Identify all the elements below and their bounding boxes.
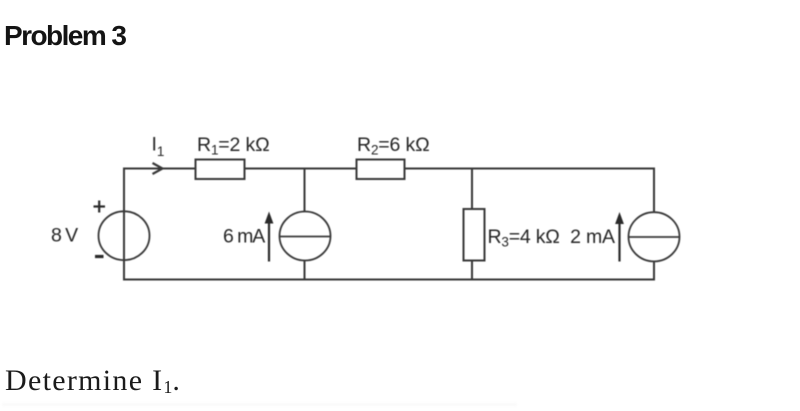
- resistor R1: [196, 160, 245, 180]
- title: Problem 3: [4, 22, 125, 50]
- diameter line of 2 mA source: [629, 236, 680, 238]
- resistor R3 (vertical): [464, 209, 485, 261]
- plus sign of voltage source: [94, 201, 106, 213]
- svg-text:8 V: 8 V: [51, 225, 78, 247]
- arrow of 6 mA source: [265, 212, 274, 262]
- svg-text:R2=6 kΩ: R2=6 kΩ: [357, 134, 430, 158]
- arrow of 2 mA source: [615, 212, 624, 262]
- wire: left vertical through voltage source: [123, 168, 125, 281]
- svg-text:I1: I1: [152, 134, 165, 160]
- wire: middle branch vertical (6 mA branch): [304, 168, 306, 281]
- wire: bottom horizontal rail: [123, 279, 655, 281]
- svg-text:6 mA: 6 mA: [223, 226, 265, 248]
- minus sign of voltage source: [95, 255, 104, 258]
- diameter line of 6 mA source: [280, 236, 331, 238]
- svg-text:R1=2 kΩ: R1=2 kΩ: [197, 134, 270, 158]
- faint cropped text artifact at bottom: [2, 403, 517, 406]
- wire: right branch vertical (2 mA branch): [653, 168, 655, 281]
- question text: Determine I1.: [5, 366, 181, 396]
- current source I6 6 mA circle: [280, 212, 331, 261]
- current source I2 2 mA circle: [629, 212, 680, 261]
- svg-text:R3=4 kΩ 2 mA: R3=4 kΩ 2 mA: [488, 226, 616, 250]
- wire: R3 branch vertical: [471, 168, 473, 281]
- current arrow I1 (chevron on top wire): [153, 163, 163, 174]
- wire: top horizontal rail: [124, 168, 654, 170]
- resistor R2: [357, 160, 405, 180]
- voltage source V1 8V circle: [99, 211, 150, 260]
